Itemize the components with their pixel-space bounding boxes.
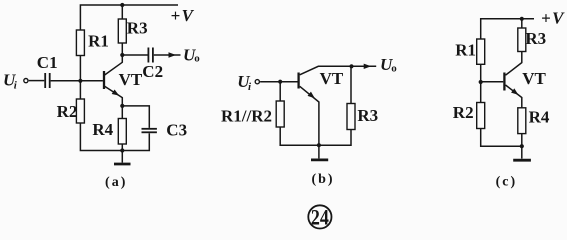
terminal: input circle (b) <box>255 80 259 84</box>
svg-text:R1//R2: R1//R2 <box>221 106 272 125</box>
node: bottom junction dot (a) <box>120 148 124 152</box>
resistor R4 (a) <box>118 119 126 145</box>
transistor VT collector arm (c) <box>506 52 522 76</box>
resistor R1 (a) <box>76 30 84 56</box>
svg-text:R3: R3 <box>127 18 148 37</box>
transistor VT emitter arm (a) <box>105 86 123 106</box>
ground (c) <box>521 146 523 158</box>
wire: emitter node to C3 top (a) <box>122 106 149 128</box>
resistor R2 (a) <box>76 99 84 123</box>
wire: R1//R2 bottom lead + bottom rail + R3 bottom lead (b) <box>280 127 351 145</box>
arrow: output arrow (b) <box>364 64 372 69</box>
svg-text:R4: R4 <box>529 108 550 127</box>
wire: R2 bottom lead + bottom rail + C3 bottom lead (a) <box>80 123 149 151</box>
svg-text:o: o <box>194 53 200 65</box>
figure number badge 24 <box>308 205 331 228</box>
transistor VT emitter arm (c) <box>506 85 522 108</box>
wire: R3 top lead (a) <box>121 5 123 19</box>
ground (b) <box>318 145 320 158</box>
transistor VT emitter arrow (b) <box>308 92 317 101</box>
svg-text:R3: R3 <box>525 29 546 48</box>
node: base node dot (c) <box>479 80 483 84</box>
svg-text:R2: R2 <box>453 103 474 122</box>
resistor R3 (a) <box>118 19 126 43</box>
svg-text:+V: +V <box>541 8 565 27</box>
svg-text:i: i <box>14 80 18 92</box>
wire: input to C1 (a) <box>29 80 45 82</box>
capacitor C2 (a) <box>148 48 150 63</box>
node: top rail junction (c) <box>520 17 524 21</box>
node: base node dot (b) <box>278 80 282 84</box>
svg-text:R4: R4 <box>92 120 113 139</box>
node: collector node dot (a) <box>120 53 124 57</box>
node: bottom junction dot (b) <box>317 143 321 147</box>
wire: C2 to output Uo (a) <box>154 54 181 56</box>
capacitor C1 (a) <box>44 73 46 88</box>
svg-text:(a): (a) <box>105 175 127 190</box>
svg-text:(c): (c) <box>496 174 518 189</box>
capacitor C3 (a) <box>142 128 157 130</box>
transistor VT collector arm + output rail (b) <box>300 66 377 75</box>
wire: R1 bottom lead to base node (a) <box>79 56 81 100</box>
transistor VT emitter arrow (a) <box>112 89 121 97</box>
wire: collector node to C2 (a) <box>122 54 147 56</box>
transistor VT base bar (a) <box>103 71 105 89</box>
svg-text:C2: C2 <box>142 62 163 81</box>
node: top rail junction (a) <box>120 3 124 7</box>
wire: R3 top lead (c) <box>521 19 523 28</box>
transistor VT emitter arm (b) <box>300 86 319 145</box>
svg-text:R2: R2 <box>57 102 78 121</box>
transistor VT collector arm (a) <box>105 55 123 75</box>
node: base node dot (a) <box>78 79 82 83</box>
svg-text:24: 24 <box>311 206 329 230</box>
ground (a) <box>121 151 123 163</box>
wire: input to base (b) <box>260 81 297 83</box>
svg-text:VT: VT <box>320 69 344 88</box>
svg-text:VT: VT <box>119 70 143 89</box>
wire: base node to transistor (c) <box>481 81 504 83</box>
svg-text:(b): (b) <box>311 172 334 187</box>
transistor VT base bar (b) <box>297 73 299 89</box>
wire: +V top rail (c) <box>481 19 534 39</box>
wire: R3 bottom lead to collector node (a) <box>121 43 123 55</box>
node: bottom junction dot (c) <box>520 144 524 148</box>
wire: R4 bottom lead (c) <box>521 134 523 147</box>
node: emitter node dot (a) <box>120 104 124 108</box>
resistor R3 (c) <box>518 28 526 52</box>
svg-text:o: o <box>391 62 397 74</box>
wire: R1//R2 top lead (b) <box>279 82 281 101</box>
transistor VT emitter arrow (c) <box>511 88 520 97</box>
svg-text:C3: C3 <box>166 121 187 140</box>
resistor R1//R2 (b) <box>276 101 284 127</box>
svg-text:C1: C1 <box>37 53 58 72</box>
wire: R3 top lead (b) <box>350 66 352 103</box>
svg-text:R1: R1 <box>455 40 476 59</box>
svg-text:i: i <box>248 81 252 93</box>
wire: R1 bottom lead to base node (c) <box>480 64 482 102</box>
wire: R2 bottom lead + bottom rail (c) <box>481 129 522 147</box>
svg-text:VT: VT <box>522 69 546 88</box>
svg-text:R3: R3 <box>357 106 378 125</box>
wire: +V top rail (a) <box>80 5 178 30</box>
svg-text:R1: R1 <box>88 31 109 50</box>
node: collector junction dot (b) <box>349 64 353 68</box>
wire: R4 bottom lead (a) <box>121 144 123 151</box>
terminal: input circle (a) <box>24 79 28 83</box>
arrow: output arrow (a) <box>169 52 177 57</box>
transistor VT base bar (c) <box>503 73 505 91</box>
wire: R4 top lead (a) <box>121 106 123 119</box>
svg-text:+V: +V <box>171 6 195 25</box>
wire: C1 to base node to transistor base (a) <box>51 80 103 82</box>
resistor R3 (b) <box>347 104 355 130</box>
resistor R1 (c) <box>477 39 485 64</box>
resistor R4 (c) <box>518 108 526 134</box>
resistor R2 (c) <box>477 103 485 129</box>
